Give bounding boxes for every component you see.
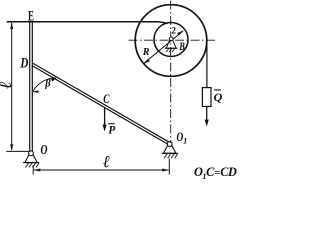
svg-text:R: R — [142, 47, 150, 58]
svg-text:E: E — [28, 9, 34, 25]
svg-text:O: O — [41, 142, 48, 157]
dimension: R / r diagonal with arrows — [144, 31, 183, 63]
svg-text:β: β — [44, 79, 51, 90]
svg-text:D: D — [20, 56, 29, 72]
wire: top rope from E to pulley — [7, 21, 159, 23]
wire: bottom dimension line — [34, 169, 169, 171]
svg-text:Q: Q — [214, 90, 223, 104]
svg-text:B: B — [179, 39, 185, 53]
node O: pin joint circle — [29, 151, 34, 156]
wire: rope from pulley to weight — [206, 41, 208, 88]
svg-text:2: 2 — [171, 27, 176, 37]
wire: vertical center line (dash-dot) through B down to O1 — [170, 1, 172, 144]
node: angle beta arc — [33, 78, 56, 92]
support at B: triangle — [166, 40, 176, 48]
support at O: triangle — [25, 155, 37, 163]
support at O1: triangle — [164, 145, 176, 153]
wire: horizontal center line (dash-dot) — [129, 39, 216, 41]
svg-text:O1C=CD: O1C=CD — [194, 165, 237, 181]
force P arrow — [104, 107, 106, 125]
node B: center pin circle — [169, 37, 173, 41]
pulley: inner circle — [154, 23, 188, 57]
svg-text:ℓ: ℓ — [103, 152, 110, 171]
wire: left dimension line with arrows — [11, 23, 13, 150]
support at O: hatching — [26, 163, 40, 168]
svg-text:ℓ: ℓ — [0, 81, 15, 88]
wire: extension lines — [32, 165, 34, 175]
force Q arrow — [206, 107, 208, 121]
svg-text:C: C — [103, 92, 110, 106]
wire: diagonal bar D-O1 (double line) — [32, 66, 169, 145]
node O1: pin joint circle — [167, 142, 172, 147]
support at O1: hatching — [164, 153, 178, 158]
svg-text:P: P — [108, 125, 116, 137]
pulley: outer circle — [135, 5, 207, 77]
weight body rectangle — [202, 88, 211, 107]
support at B: hatching — [166, 48, 175, 52]
wire: extension line at O — [6, 150, 29, 152]
wire: vertical bar OE (double line) — [29, 22, 31, 152]
